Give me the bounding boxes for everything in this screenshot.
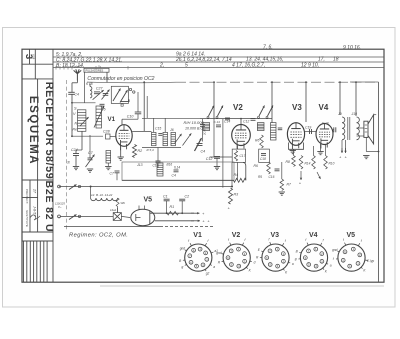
svg-text:B16: B16 [167,163,173,167]
wire antenna row [72,102,96,104]
switch wiper [121,99,130,101]
svg-text:R6: R6 [255,139,259,143]
svg-text:J13: J13 [136,163,143,167]
antenna [74,69,82,80]
mains terminal 1 [58,185,61,188]
coil L1 [90,87,92,98]
capacitor C10 [137,92,139,112]
wire bus drops [106,72,108,82]
coil V2-V3 [271,123,277,140]
svg-text:V5: V5 [347,232,356,239]
svg-text:Wb: Wb [121,201,126,205]
svg-text:V3: V3 [292,103,302,112]
capacitor C19 [305,131,317,133]
ground [73,166,79,168]
capacitor C12 [251,118,256,120]
svg-text:18: 18 [333,57,339,63]
capacitor C7 bus [115,170,120,172]
svg-text:C12: C12 [243,120,249,124]
svg-text:V4: V4 [309,232,318,239]
resistor Wb [116,198,119,207]
capacitor C out [333,127,335,132]
tube lead connects [293,149,295,156]
svg-text:V1: V1 [108,116,116,123]
resistor R14 [312,156,316,170]
svg-text:g2: g2 [206,272,210,276]
svg-text:C-19: C-19 [322,121,329,125]
svg-text:gnd: gnd [216,251,222,255]
svg-text:C7: C7 [110,172,114,176]
svg-text:9 10 16.: 9 10 16. [343,45,361,51]
transformer leads [341,140,343,152]
svg-text:3!: 3! [67,161,70,165]
tube V3 [287,123,304,146]
switch bank box [111,86,128,103]
svg-text:V2: V2 [233,103,243,112]
wire V5 out upper [150,212,194,214]
svg-text:C17: C17 [240,154,246,158]
svg-text:C27: C27 [96,86,104,90]
svg-text:C.14: C.14 [214,120,221,124]
table rule lines [53,57,384,68]
osc coil [96,106,102,128]
tuning cap arrow [195,138,202,151]
svg-text:C1: C1 [163,194,168,198]
bottom frame shadow line [100,285,384,287]
resistor R8 [292,156,296,167]
ground under V4 [317,151,323,153]
svg-text:5: 5 [185,63,188,69]
svg-text:2C48: 2C48 [203,128,207,136]
capacitor C13 [157,148,159,162]
svg-text:g: g [182,265,184,269]
svg-text:gnd: gnd [332,248,338,252]
wire h157 [210,156,233,158]
svg-text:B2E 82 U: B2E 82 U [43,181,55,233]
capacitor C12 lower [214,156,220,158]
resistor R2 [133,145,137,158]
inner box right edge [378,82,380,282]
svg-text:a: a [292,262,294,266]
svg-text:V3: V3 [271,232,280,239]
svg-text:7. 6.: 7. 6. [263,45,273,51]
trimmer 2 [103,93,109,95]
svg-text:10.000 B.O.: 10.000 B.O. [185,127,204,131]
svg-text:6,14: 6,14 [174,166,180,170]
svg-text:V 58: V 58 [31,54,35,60]
resistor R3 [229,188,233,204]
switch arrows V2 left [209,106,215,117]
svg-text:R14: R14 [305,162,311,166]
wire V5 out lower [155,220,194,222]
svg-text:g: g [295,257,297,261]
signature [30,215,40,220]
ground [87,168,93,170]
IF trimmer [171,132,175,145]
resistor box C18 [259,149,270,162]
svg-text:14a/72: 14a/72 [74,65,82,68]
svg-text:ESQUEMA: ESQUEMA [27,96,39,165]
svg-text:PROYECT.: PROYECT. [25,189,29,205]
svg-text:R6: R6 [254,164,258,168]
pushbutton box PULSADORES [84,68,109,72]
svg-text:C2: C2 [185,194,190,198]
svg-text:d: d [254,260,256,264]
IF transformer 2 box [122,162,234,180]
wire v2 column [222,119,224,188]
capacitor small [200,124,205,126]
speaker leads [357,127,364,129]
handwritten row 1 [56,45,361,59]
wire antenna to C4 [76,81,78,83]
heater resistor chain [90,187,92,199]
svg-text:V4: V4 [319,103,329,112]
svg-text:C10: C10 [127,115,134,119]
capacitor cross C3 [113,213,121,221]
resistor R10 [324,156,328,170]
svg-text:R4: R4 [234,173,239,177]
tube V2 [232,125,251,146]
ground under V3 [290,150,296,152]
coil arrow [80,117,89,126]
svg-text:2,: 2, [159,63,164,69]
wire bottom return [64,226,160,228]
bus box bottom B+ [122,179,234,181]
switch arrows V2 right [259,106,265,117]
svg-text:J10: J10 [351,112,358,116]
wire caps column [202,119,204,125]
svg-text:R 5,4: R 5,4 [147,148,155,152]
svg-text:R8: R8 [286,160,290,164]
svg-text:C18: C18 [260,157,266,161]
svg-text:C24: C24 [71,148,78,152]
IF transformer 1 [132,131,151,133]
svg-text:26,1 6,2,14,8,22,14, 7,14: 26,1 6,2,14,8,22,14, 7,14 [175,57,232,63]
svg-text:V2: V2 [232,232,241,239]
wire coil to C24 [81,131,83,150]
capacitor C24 [76,149,82,151]
wire entry ticks [55,66,57,70]
svg-text:Re: Re [73,128,77,132]
svg-text:R3: R3 [234,193,239,197]
wire top dashed bus [176,81,379,83]
wire coil bottom row [72,135,103,137]
svg-text:12. B. 22. 14-22: 12. B. 22. 14-22 [91,193,113,197]
svg-text:K 68: K 68 [86,82,93,86]
svg-text:12 9 10,: 12 9 10, [301,62,319,68]
wire grid link [137,114,139,119]
capacitor C16 [275,168,280,170]
tube V3 base [289,143,304,150]
svg-text:SUSTITUYE: SUSTITUYE [25,210,29,228]
svg-text:4 17, 16,G,2,7,: 4 17, 16,G,2,7, [232,62,265,68]
ground under V1 [118,156,124,158]
resistor box R4 C17 [232,149,245,162]
resistor R6b [267,162,271,174]
bus B mains [59,186,232,188]
tube V1 [116,125,132,147]
tube V5 rectifier [131,209,155,225]
svg-text:Regimen: OC2, OM.: Regimen: OC2, OM. [69,233,128,239]
capacitor C14b [216,124,221,126]
svg-text:C16: C16 [269,175,275,179]
speaker [364,121,368,137]
ground speaker [365,137,367,151]
svg-text:a: a [213,265,215,269]
svg-text:V~: V~ [58,205,62,209]
resistor R9 [299,156,303,170]
svg-text:V5: V5 [144,197,153,204]
svg-text:gnd: gnd [180,246,186,250]
svg-text:Conmutador en posicion OC2: Conmutador en posicion OC2 [87,76,154,82]
resistor R6 [260,135,264,148]
svg-text:a: a [330,263,332,267]
capacitor C14 [225,117,230,119]
inner box left edge [65,80,67,230]
tube V4 [316,124,333,145]
handwritten row 2 [56,57,339,64]
handwritten row 3 [56,62,319,69]
svg-text:C19: C19 [305,126,311,130]
svg-text:C28: C28 [103,130,110,134]
svg-text:RECEPTOR 58/59: RECEPTOR 58/59 [43,82,55,180]
svg-text:J9: J9 [337,112,342,116]
junction dots rail [143,81,145,83]
svg-text:C4: C4 [75,93,79,97]
svg-text:C14: C14 [224,120,230,124]
mains terminal 2 [58,215,61,218]
capacitor C4 antenna [68,91,75,93]
svg-text:C12: C12 [206,157,213,161]
svg-text:R2: R2 [138,149,143,153]
svg-text:7a,: 7a, [98,65,102,68]
svg-text:C4: C4 [201,149,206,153]
ground [214,166,220,168]
svg-text:PULSADORES: PULSADORES [86,68,104,72]
osc coil 2 [106,151,111,164]
resistor R4 [234,178,247,182]
svg-text:C15: C15 [155,127,161,131]
resistor R7 [281,162,283,179]
svg-text:14a1: 14a1 [110,208,117,212]
svg-text:R1: R1 [170,205,175,209]
svg-text:R5: R5 [258,175,262,179]
svg-text:E.lyp: E.lyp [367,259,374,263]
svg-text:C4: C4 [172,174,176,178]
svg-text:J6: J6 [169,128,174,132]
wire junction R3 [231,163,233,187]
svg-text:R10: R10 [329,162,335,166]
svg-text:V1: V1 [193,232,202,239]
coil J15 [203,123,210,131]
svg-text:R7: R7 [287,183,291,187]
wire grid row V2 [200,118,272,120]
coil J15b [257,123,264,131]
